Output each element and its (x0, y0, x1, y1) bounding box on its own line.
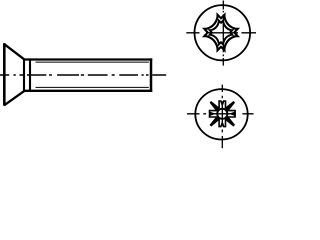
cone bottom edge (4, 91, 24, 106)
phillips recess inner outline (210, 21, 232, 45)
centerline vertical (bottom circle) (221, 85, 223, 149)
screw axis centerline (dash-dot) (0, 74, 166, 76)
screw end face line (150, 58, 153, 92)
centerline horizontal (top circle) (186, 32, 256, 34)
pozidriv wedge upper-left (210, 102, 219, 111)
shank major diameter top (23, 58, 152, 60)
cone top edge (4, 44, 24, 60)
pozidriv center circle (217, 109, 227, 119)
centerline horizontal (bottom circle) (187, 113, 254, 115)
pozidriv left arm (210, 111, 217, 117)
pozidriv wedge lower-right (225, 117, 234, 126)
thread minor diameter top (36, 61, 149, 63)
phillips recess outer outline (204, 15, 237, 51)
shank major diameter bottom (23, 90, 152, 92)
head outline circle (top) (195, 5, 251, 60)
pozidriv wedge upper-right (225, 102, 234, 111)
junction line 1 (23, 59, 25, 92)
pozidriv right arm (228, 111, 235, 117)
junction line 2 (thread runout) (29, 59, 31, 92)
pozidriv wedge lower-left (210, 117, 219, 126)
head face line (3, 43, 6, 105)
head outline circle (bottom) (195, 89, 247, 139)
pozidriv top arm (219, 101, 225, 108)
pozidriv bottom arm (219, 119, 225, 126)
centerline vertical (top circle) (222, 1, 224, 66)
thread minor diameter bottom (36, 86, 149, 88)
